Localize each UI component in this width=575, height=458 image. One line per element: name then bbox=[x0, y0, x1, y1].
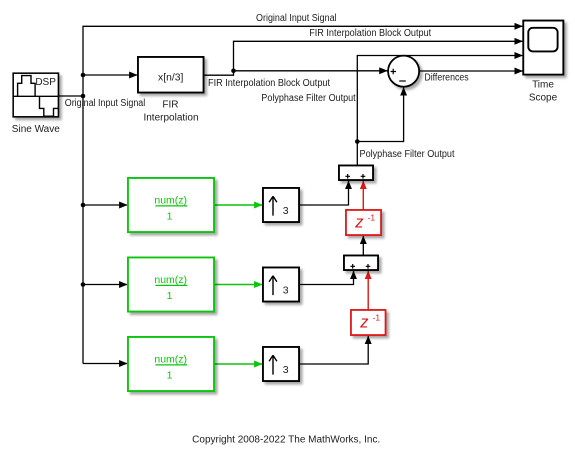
svg-text:3: 3 bbox=[283, 364, 289, 376]
svg-text:-1: -1 bbox=[368, 212, 376, 222]
block Sine Wave bbox=[13, 73, 58, 117]
label Sine Wave bbox=[12, 124, 60, 135]
wire: upsample 1 output to sum 1 left input bbox=[299, 181, 349, 205]
svg-text:x[n/3]: x[n/3] bbox=[158, 71, 183, 83]
wire: FIR output junction to subtract circle left input bbox=[234, 70, 388, 72]
svg-text:Copyright 2008-2022 The MathWo: Copyright 2008-2022 The MathWorks, Inc. bbox=[192, 435, 380, 446]
wire: delay 1 output to sum 1 right input (red) bbox=[362, 181, 364, 210]
label Time Scope bbox=[529, 80, 558, 104]
label signal: Polyphase Filter Output (upper) bbox=[261, 93, 356, 104]
svg-text:3: 3 bbox=[283, 285, 289, 297]
label FIR Interpolation bbox=[143, 99, 198, 123]
label signal: Differences bbox=[424, 73, 468, 84]
svg-text:Original Input Signal: Original Input Signal bbox=[65, 98, 146, 109]
node: junction dot filter 2 branch bbox=[81, 282, 86, 287]
svg-text:-1: -1 bbox=[373, 312, 381, 322]
svg-text:Sine Wave: Sine Wave bbox=[12, 124, 60, 135]
wire: Sine Wave output to trunk bbox=[58, 95, 83, 97]
wire: trunk branch to FIR Interpolation input bbox=[83, 74, 137, 76]
node: junction dot FIR branch bbox=[81, 73, 86, 78]
svg-text:3: 3 bbox=[283, 205, 289, 217]
wire: filter 1 to upsample 1 (green) bbox=[214, 204, 262, 206]
svg-text:num(z): num(z) bbox=[154, 353, 187, 365]
block sum 2 (+ +) bbox=[344, 256, 378, 271]
block polyphase filter 3 num(z)/1 bbox=[128, 337, 214, 391]
svg-text:FIR Interpolation Block Output: FIR Interpolation Block Output bbox=[208, 78, 330, 89]
svg-text:Polyphase Filter Output: Polyphase Filter Output bbox=[360, 149, 455, 160]
wire: trunk branch to polyphase filter 2 input bbox=[83, 284, 127, 286]
svg-text:1: 1 bbox=[167, 290, 173, 302]
label signal: Original Input Signal (near Sine Wave) bbox=[65, 98, 146, 109]
block sum 1 (+ +) bbox=[339, 166, 373, 181]
wire: filter 3 to upsample 3 (green) bbox=[214, 363, 262, 365]
svg-text:Differences: Differences bbox=[424, 73, 468, 84]
svg-text:FIR Interpolation Block Output: FIR Interpolation Block Output bbox=[309, 28, 431, 39]
wire: Original Input Signal top line to Time Scope input 1 bbox=[83, 26, 523, 363]
label copyright bbox=[192, 435, 380, 446]
wire: upsample 3 output to delay 2 input bbox=[299, 336, 368, 364]
wire: sum 2 output to delay 1 input bbox=[362, 236, 364, 256]
label signal: Original Input Signal (top line) bbox=[256, 13, 337, 24]
node: junction dot polyphase output bbox=[355, 139, 360, 144]
node: junction dot filter 1 branch bbox=[81, 203, 86, 208]
block subtract circle (+/-) bbox=[388, 56, 419, 87]
wire: trunk branch to polyphase filter 1 input bbox=[83, 204, 127, 206]
block FIR Interpolation U1 bbox=[138, 57, 204, 93]
label signal: Polyphase Filter Output (lower) bbox=[360, 149, 455, 160]
svg-text:z: z bbox=[354, 214, 364, 232]
svg-text:num(z): num(z) bbox=[154, 274, 187, 286]
block upsample 3 bbox=[263, 347, 299, 381]
block polyphase filter 1 num(z)/1 bbox=[128, 178, 214, 232]
svg-text:Original Input Signal: Original Input Signal bbox=[256, 13, 337, 24]
wire: delay 2 output to sum 2 right input (red) bbox=[367, 271, 369, 310]
node: junction dot FIR output bbox=[231, 69, 236, 74]
svg-text:Interpolation: Interpolation bbox=[143, 112, 198, 123]
svg-text:Time: Time bbox=[532, 80, 554, 91]
node: junction dot sine output bbox=[81, 94, 86, 99]
label signal: FIR Interpolation Block Output (near FIR block) bbox=[208, 78, 330, 89]
wire: FIR Interpolation output riser to Time Scope input 2 bbox=[204, 41, 523, 75]
block delay 2 z^-1 (red) bbox=[351, 310, 386, 335]
wire: subtract circle output to Time Scope input 4 bbox=[419, 70, 522, 72]
block delay 1 z^-1 (red) bbox=[346, 210, 381, 235]
svg-text:num(z): num(z) bbox=[154, 194, 187, 206]
wire: filter 2 to upsample 2 (green) bbox=[214, 284, 262, 286]
wire: sum 1 output riser to Time Scope input 3 bbox=[357, 56, 522, 166]
wire: trunk bottom to polyphase filter 3 input bbox=[83, 363, 127, 365]
block Time Scope bbox=[523, 21, 563, 75]
svg-text:1: 1 bbox=[167, 369, 173, 381]
svg-text:Scope: Scope bbox=[529, 92, 558, 103]
svg-text:1: 1 bbox=[167, 210, 173, 222]
svg-text:FIR: FIR bbox=[162, 99, 178, 110]
label signal: FIR Interpolation Block Output (top line) bbox=[309, 28, 431, 39]
wire: polyphase output junction to subtract circle bottom input bbox=[357, 87, 403, 141]
svg-text:Polyphase Filter Output: Polyphase Filter Output bbox=[261, 93, 356, 104]
block upsample 1 bbox=[263, 188, 299, 222]
wire: upsample 2 output to sum 2 left input bbox=[299, 271, 354, 285]
block upsample 2 bbox=[263, 268, 299, 302]
svg-text:z: z bbox=[359, 314, 369, 332]
svg-text:DSP: DSP bbox=[35, 77, 56, 88]
block polyphase filter 2 num(z)/1 bbox=[128, 258, 214, 312]
